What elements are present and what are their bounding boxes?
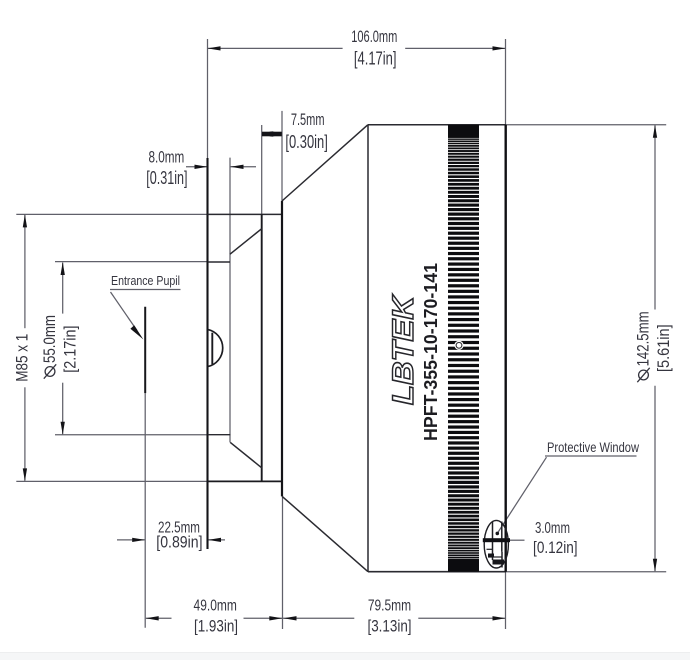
svg-text:HPFT-355-10-170-141: HPFT-355-10-170-141 (421, 263, 441, 441)
svg-text:55.0mm: 55.0mm (41, 315, 59, 363)
svg-text:[0.12in]: [0.12in] (533, 538, 578, 557)
svg-text:[0.89in]: [0.89in] (156, 533, 202, 552)
svg-text:M85 x 1: M85 x 1 (14, 334, 32, 382)
svg-text:3.0mm: 3.0mm (535, 520, 570, 537)
svg-text:8.0mm: 8.0mm (149, 148, 185, 166)
svg-text:[0.30in]: [0.30in] (285, 132, 327, 152)
svg-text:[3.13in]: [3.13in] (368, 617, 412, 636)
svg-text:[1.93in]: [1.93in] (194, 617, 238, 636)
svg-text:7.5mm: 7.5mm (291, 111, 325, 129)
svg-text:[5.61in]: [5.61in] (655, 324, 673, 372)
svg-text:LBTEK: LBTEK (387, 293, 420, 405)
svg-text:106.0mm: 106.0mm (351, 28, 397, 46)
svg-text:79.5mm: 79.5mm (368, 598, 411, 615)
svg-text:142.5mm: 142.5mm (634, 311, 652, 366)
svg-text:[2.17in]: [2.17in] (61, 326, 79, 373)
svg-text:49.0mm: 49.0mm (194, 598, 237, 615)
svg-text:Protective Window: Protective Window (547, 439, 640, 455)
svg-text:Entrance Pupil: Entrance Pupil (111, 274, 180, 288)
svg-text:[4.17in]: [4.17in] (354, 48, 397, 68)
svg-text:[0.31in]: [0.31in] (146, 168, 187, 188)
